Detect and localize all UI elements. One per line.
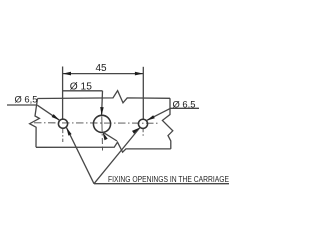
svg-text:Ø 6,5: Ø 6,5 bbox=[15, 93, 38, 104]
svg-text:Ø 15: Ø 15 bbox=[70, 81, 92, 92]
caption leader arrow at left hole bbox=[66, 127, 71, 135]
label 15 leader bbox=[101, 91, 104, 116]
hole right center mark below bbox=[142, 129, 144, 138]
caption leader arrow at middle hole bbox=[103, 132, 108, 140]
hole left center mark below bbox=[62, 129, 64, 142]
label 6,5 left arrow bbox=[52, 114, 60, 120]
plate top edge with break bbox=[38, 91, 171, 103]
caption leader left branch bbox=[66, 127, 94, 184]
caption leader arrow at right hole bbox=[132, 128, 140, 134]
hole right circle bbox=[138, 119, 147, 128]
plate left break edge bbox=[30, 99, 40, 148]
plate bottom edge with break bbox=[36, 142, 171, 152]
plate right edge with break bbox=[162, 98, 172, 149]
dimension 45 arrow right bbox=[135, 72, 143, 76]
dimension 45 extension line left bbox=[62, 67, 64, 120]
svg-text:FIXING OPENINGS IN THE CARRIAG: FIXING OPENINGS IN THE CARRIAGE bbox=[108, 174, 229, 184]
label 15 underline bbox=[63, 90, 103, 92]
hole middle vertical center mark bbox=[101, 117, 104, 151]
centerline horizontal bbox=[34, 122, 160, 124]
hole middle circle bbox=[93, 115, 110, 132]
label 15 arrow bbox=[100, 107, 104, 115]
label 6,5 left underline bbox=[7, 104, 38, 106]
caption underline bbox=[94, 183, 229, 185]
label 6.5 right underline bbox=[171, 107, 200, 109]
caption leader middle branch bbox=[103, 132, 118, 141]
label 6.5 right arrow bbox=[146, 115, 154, 120]
dimension 45 line bbox=[63, 73, 144, 75]
svg-text:45: 45 bbox=[95, 63, 107, 74]
dimension 45 extension line right bbox=[142, 67, 144, 120]
label 6,5 left leader bbox=[38, 105, 60, 120]
hole left circle bbox=[58, 119, 67, 128]
label 6.5 right leader bbox=[146, 108, 170, 120]
dimension 45 arrow left bbox=[63, 72, 71, 76]
svg-text:Ø 6.5: Ø 6.5 bbox=[173, 98, 196, 109]
caption leader right branch bbox=[94, 128, 140, 184]
